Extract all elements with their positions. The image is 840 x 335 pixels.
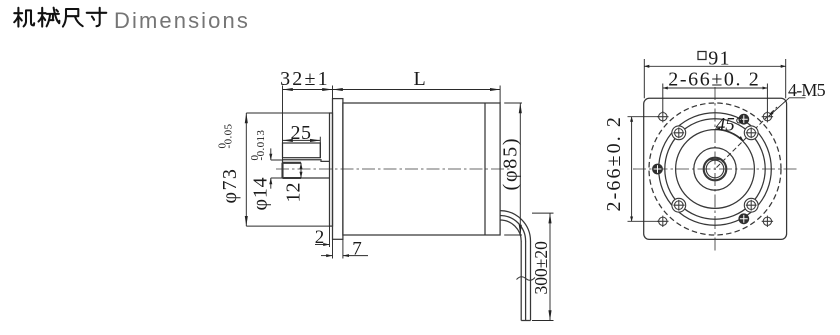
motor body <box>343 103 500 235</box>
svg-text:7: 7 <box>352 239 362 260</box>
cable bend <box>500 211 531 242</box>
svg-text:Dimensions: Dimensions <box>114 8 250 33</box>
svg-text:-0.05: -0.05 <box>223 123 235 148</box>
M5 hole bottom-right <box>762 216 773 227</box>
M5 hole top-right <box>762 111 773 122</box>
svg-text:4-M5: 4-M5 <box>788 80 826 100</box>
centerline side view <box>276 168 511 170</box>
circle outer ring <box>659 113 772 226</box>
svg-text:2: 2 <box>315 227 325 248</box>
flange square <box>644 98 787 239</box>
shaft flat (thick) <box>283 163 302 178</box>
shaft outer circle <box>704 158 727 181</box>
light screw 315deg <box>746 200 757 211</box>
dimension 7 <box>321 239 368 258</box>
title chinese 机械尺寸 <box>14 8 106 27</box>
dimension 300±20 <box>532 213 554 320</box>
svg-text:32±1: 32±1 <box>280 68 330 90</box>
dimension 2-66±0.2 left <box>628 117 660 222</box>
dark screw 300deg <box>739 214 749 224</box>
dimension 2 <box>315 226 330 247</box>
shaft inner circle <box>706 160 724 178</box>
svg-text:φ73: φ73 <box>219 168 241 204</box>
svg-text:L: L <box>413 68 425 90</box>
screw ear bumps <box>672 126 758 212</box>
char 寸 <box>87 8 107 26</box>
dimension 45deg arc <box>715 129 743 141</box>
shaft flat chord <box>708 159 722 161</box>
svg-text:-0.013: -0.013 <box>255 130 267 161</box>
svg-text:91: 91 <box>708 47 730 69</box>
M5 hole top-left <box>657 111 668 122</box>
svg-text:12: 12 <box>283 183 305 203</box>
cable break mark <box>517 277 536 281</box>
dimension 25 <box>283 137 321 158</box>
centerline vertical <box>714 87 716 251</box>
svg-text:φ14: φ14 <box>250 177 272 211</box>
circle inner ring <box>665 119 765 219</box>
diagonal 45 deg dashed <box>717 107 778 168</box>
svg-text:45°: 45° <box>716 115 743 136</box>
light screw 135deg <box>673 127 684 138</box>
circle ring4 <box>676 130 755 209</box>
spigot phi73 <box>330 113 333 226</box>
centerline horizontal <box>633 168 798 170</box>
char 械 <box>39 8 60 27</box>
dimension square91 <box>644 52 785 99</box>
svg-text:2-66±0. 2: 2-66±0. 2 <box>668 69 760 91</box>
body rear seam <box>484 103 486 235</box>
dimension 2-66±0.2 top <box>663 84 768 113</box>
light screw 225deg <box>673 200 684 211</box>
svg-text:(φ85): (φ85) <box>500 137 522 191</box>
dimension phi73 with tolerance <box>246 113 329 226</box>
dark screw 180deg <box>653 164 663 174</box>
dimension (phi85) <box>504 103 522 235</box>
char 机 <box>14 8 34 27</box>
svg-text:300±20: 300±20 <box>531 241 551 295</box>
mounting flange plate <box>333 99 343 240</box>
hub circle <box>694 148 736 190</box>
shaft outline <box>283 160 330 178</box>
cable vertical <box>521 241 530 321</box>
svg-text:25: 25 <box>291 122 312 144</box>
key on shaft <box>283 143 321 158</box>
dimension phi14 with tolerance <box>271 148 283 188</box>
char 尺 <box>63 9 83 27</box>
light screw 45deg <box>746 127 757 138</box>
dashed circle body phi85 <box>649 103 781 235</box>
dark screw 60deg <box>739 114 749 124</box>
label 4-M5 with leader <box>769 98 806 116</box>
dimension L <box>333 86 501 104</box>
dimension 12 <box>300 163 302 178</box>
M5 hole bottom-left <box>657 216 668 227</box>
dimension 32±1 <box>283 86 333 161</box>
svg-text:2-66±0. 2: 2-66±0. 2 <box>603 115 625 212</box>
